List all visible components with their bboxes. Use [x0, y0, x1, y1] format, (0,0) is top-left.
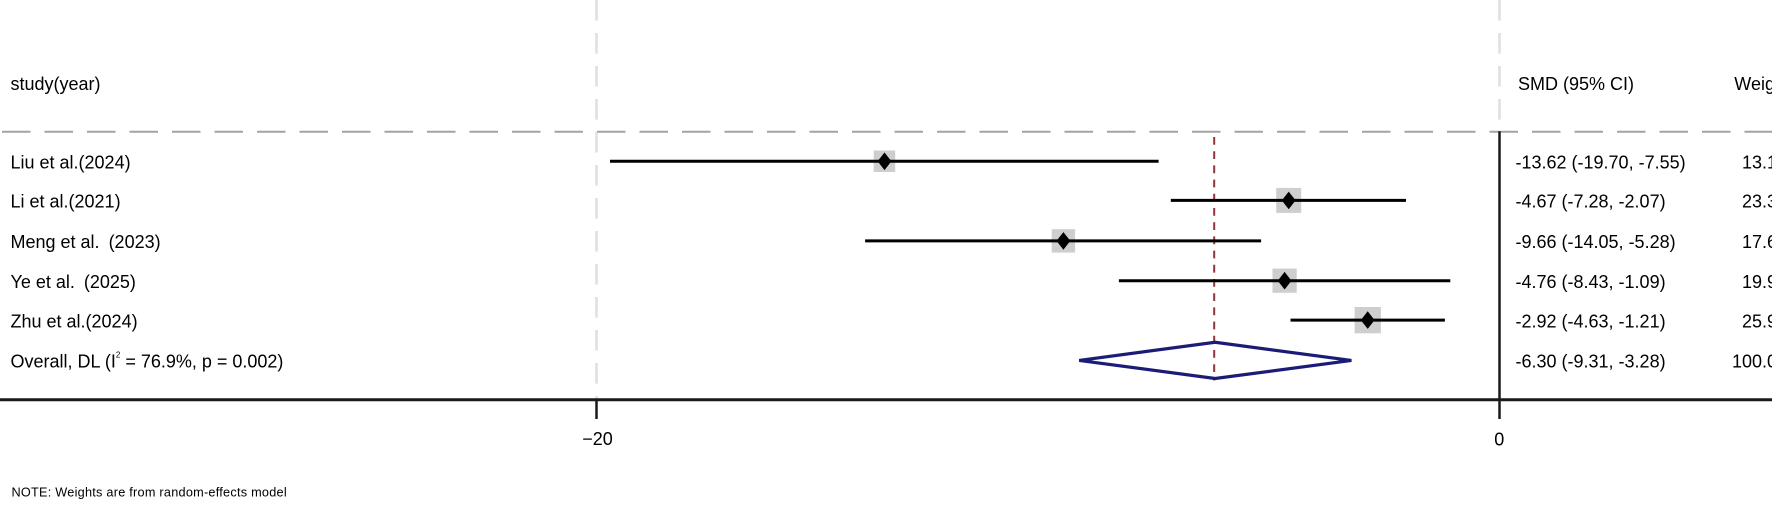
header separator dashed line	[2, 131, 1772, 133]
svg-text:17.69: 17.69	[1742, 232, 1772, 252]
row Zhu: point marker	[1361, 311, 1375, 329]
row Meng: CI line	[865, 239, 1261, 242]
row Li: CI line	[1171, 199, 1406, 202]
svg-text:13.16: 13.16	[1742, 153, 1772, 173]
svg-text:0: 0	[1494, 430, 1504, 450]
row Ye: point marker	[1278, 272, 1292, 290]
row Ye: weight box	[1273, 269, 1297, 293]
svg-text:-4.76 (-8.43, -1.09): -4.76 (-8.43, -1.09)	[1516, 272, 1666, 292]
row Li: point marker	[1282, 192, 1296, 210]
svg-text:23.33: 23.33	[1742, 192, 1772, 212]
gridline x=0 upper segment (dashed)	[1498, 0, 1501, 130]
row Zhu: CI line	[1291, 319, 1445, 322]
svg-text:100.00: 100.00	[1732, 352, 1772, 372]
svg-text:study(year): study(year)	[11, 74, 101, 94]
svg-text:Li et al.(2021): Li et al.(2021)	[11, 192, 121, 212]
row Meng: weight box	[1052, 229, 1075, 252]
svg-text:Meng et al.(2023): Meng et al.(2023)	[11, 232, 161, 252]
svg-text:19.92: 19.92	[1742, 272, 1772, 292]
svg-text:Zhu et al.(2024): Zhu et al.(2024)	[11, 311, 138, 331]
svg-text:Overall, DL (I2 = 76.9%, p = 0: Overall, DL (I2 = 76.9%, p = 0.002)	[11, 351, 284, 372]
row Liu: weight box	[874, 151, 896, 173]
svg-text:Liu et al.(2024): Liu et al.(2024)	[11, 153, 131, 173]
svg-text:Ye et al.(2025): Ye et al.(2025)	[11, 272, 136, 292]
row Liu: CI line	[610, 160, 1159, 163]
axis vertical line at 0	[1498, 131, 1501, 419]
svg-text:Weight: Weight	[1734, 74, 1772, 94]
svg-text:-2.92 (-4.63, -1.21): -2.92 (-4.63, -1.21)	[1516, 311, 1666, 331]
row Zhu: weight box	[1355, 307, 1381, 333]
x axis line	[0, 398, 1772, 401]
tick at -20	[595, 400, 598, 419]
svg-text:25.90: 25.90	[1742, 311, 1772, 331]
svg-text:-13.62 (-19.70, -7.55): -13.62 (-19.70, -7.55)	[1516, 153, 1686, 173]
svg-text:SMD (95% CI): SMD (95% CI)	[1518, 74, 1634, 94]
svg-text:-6.30 (-9.31, -3.28): -6.30 (-9.31, -3.28)	[1516, 352, 1666, 372]
row Li: weight box	[1276, 188, 1301, 213]
gridline x=-20 (dashed)	[595, 0, 598, 399]
row Ye: CI line	[1119, 279, 1450, 282]
svg-text:−20: −20	[582, 429, 613, 449]
overall effect red dashed line	[1213, 137, 1215, 381]
row Meng: point marker	[1057, 232, 1071, 250]
svg-text:-9.66 (-14.05, -5.28): -9.66 (-14.05, -5.28)	[1516, 232, 1676, 252]
overall diamond	[1079, 342, 1351, 378]
svg-text:-4.67 (-7.28, -2.07): -4.67 (-7.28, -2.07)	[1516, 192, 1666, 212]
row Liu: point marker	[878, 153, 892, 171]
svg-text:NOTE: Weights are from random-: NOTE: Weights are from random-effects mo…	[12, 486, 287, 500]
